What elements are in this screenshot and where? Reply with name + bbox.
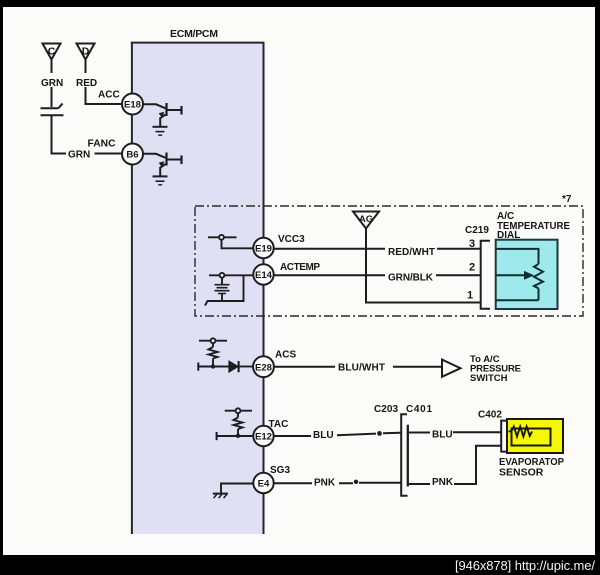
connector C203 bracket <box>401 414 407 496</box>
svg-text:PNK: PNK <box>314 478 336 489</box>
off-page arrow to A/C pressure switch <box>442 360 461 377</box>
pin E4 <box>253 473 273 493</box>
svg-text:C: C <box>48 46 56 58</box>
wire BLU/WHT <box>274 366 441 368</box>
internal pull-up and diode at E28 <box>198 338 253 372</box>
pin E19 <box>253 238 273 258</box>
frame bottom bar <box>0 555 600 575</box>
pin E18 <box>122 94 143 115</box>
svg-text:ACTEMP: ACTEMP <box>280 262 320 273</box>
ECM/PCM box <box>131 43 264 535</box>
transistor Q1 (ACC driver) <box>143 103 182 127</box>
transistor Q2 (FANC driver) <box>143 153 182 177</box>
pin B6 <box>122 144 143 165</box>
svg-text:SG3: SG3 <box>270 465 290 476</box>
ground G1 <box>153 127 168 135</box>
svg-text:B6: B6 <box>126 150 138 161</box>
evaporator sensor box <box>507 419 563 453</box>
wire GRN down to capacitor <box>51 87 53 107</box>
svg-text:C203: C203 <box>374 404 398 415</box>
svg-text:D: D <box>82 46 90 58</box>
ground G2 <box>153 176 168 184</box>
pin E14 <box>253 264 273 284</box>
svg-text:ACC: ACC <box>98 90 120 101</box>
connector C402 bracket <box>501 421 507 452</box>
frame top bar <box>0 0 600 7</box>
svg-text:E18: E18 <box>124 100 142 111</box>
wire PNK (right) <box>409 446 501 484</box>
ECM/PCM box right edge <box>263 43 265 534</box>
svg-text:E14: E14 <box>255 270 273 281</box>
wire BLU (left) <box>274 433 401 436</box>
svg-text:GRN: GRN <box>41 78 63 89</box>
svg-text:SENSOR: SENSOR <box>499 467 544 479</box>
internal pull-up at E12 <box>217 408 253 440</box>
ECM/PCM box top edge <box>131 42 265 44</box>
connector C219 bracket <box>481 241 490 309</box>
potentiometer (temperature dial) <box>497 249 544 300</box>
svg-text:ECM/PCM: ECM/PCM <box>170 28 218 40</box>
node VCC3 internal tap <box>208 235 254 248</box>
svg-text:AG: AG <box>359 214 373 225</box>
svg-text:TAC: TAC <box>269 419 289 430</box>
wire D stem <box>85 60 87 74</box>
wire GRN/BLK <box>274 274 480 276</box>
sensor element loop <box>512 429 551 446</box>
svg-text:GRN/BLK: GRN/BLK <box>388 273 434 284</box>
svg-text:C219: C219 <box>465 225 489 236</box>
svg-text:E4: E4 <box>258 479 270 490</box>
pin E28 <box>253 356 274 377</box>
dashed option box <box>195 206 583 316</box>
A/C temperature dial box <box>496 240 558 309</box>
internal resistor network at E14 <box>205 273 254 306</box>
svg-text:E12: E12 <box>255 432 272 443</box>
svg-text:E28: E28 <box>255 362 273 373</box>
ECM/PCM box left edge <box>131 43 133 534</box>
wire RED down to ACC row <box>86 87 123 104</box>
wire RED/WHT <box>274 248 480 250</box>
svg-text:BLU/WHT: BLU/WHT <box>338 363 385 374</box>
svg-text:E19: E19 <box>255 244 272 255</box>
svg-text:2: 2 <box>469 262 475 274</box>
pin E12 <box>253 426 273 446</box>
connector D triangle <box>77 44 95 60</box>
wire C stem <box>51 60 53 74</box>
wire PNK (left) <box>274 482 401 485</box>
svg-text:C402: C402 <box>478 410 502 421</box>
svg-text:BLU: BLU <box>313 430 334 441</box>
thermistor zigzag <box>509 427 533 437</box>
svg-text:[946x878] http://upic.me/: [946x878] http://upic.me/ <box>455 558 595 573</box>
svg-text:3: 3 <box>469 238 475 250</box>
junction dot on PNK <box>354 480 358 484</box>
svg-text:VCC3: VCC3 <box>278 234 305 245</box>
ground at E4 <box>213 484 253 499</box>
svg-text:DIAL: DIAL <box>497 230 520 241</box>
svg-text:*7: *7 <box>562 194 572 205</box>
svg-text:BLU: BLU <box>432 430 453 441</box>
svg-text:RED/WHT: RED/WHT <box>388 247 435 258</box>
svg-text:GRN: GRN <box>68 150 90 161</box>
connector C triangle <box>43 44 61 60</box>
svg-text:SWITCH: SWITCH <box>470 373 508 384</box>
junction dot on BLU <box>377 431 382 436</box>
wire GRN to B6 <box>95 153 123 155</box>
frame right bar <box>595 0 600 575</box>
connector C401 bar <box>407 425 409 487</box>
svg-text:C401: C401 <box>406 404 432 415</box>
wire capacitor down to FANC row <box>52 116 67 154</box>
capacitor (noise condenser) <box>41 104 64 116</box>
ground AG triangle <box>353 212 379 229</box>
svg-text:FANC: FANC <box>88 139 117 150</box>
svg-text:RED: RED <box>76 78 97 89</box>
frame left bar <box>0 0 3 575</box>
svg-text:ACS: ACS <box>275 350 296 361</box>
svg-text:1: 1 <box>467 290 473 302</box>
wire BLU (right) <box>409 431 501 433</box>
svg-text:PNK: PNK <box>432 477 454 488</box>
wire AG stem down and to C219 pin1 <box>366 229 480 303</box>
